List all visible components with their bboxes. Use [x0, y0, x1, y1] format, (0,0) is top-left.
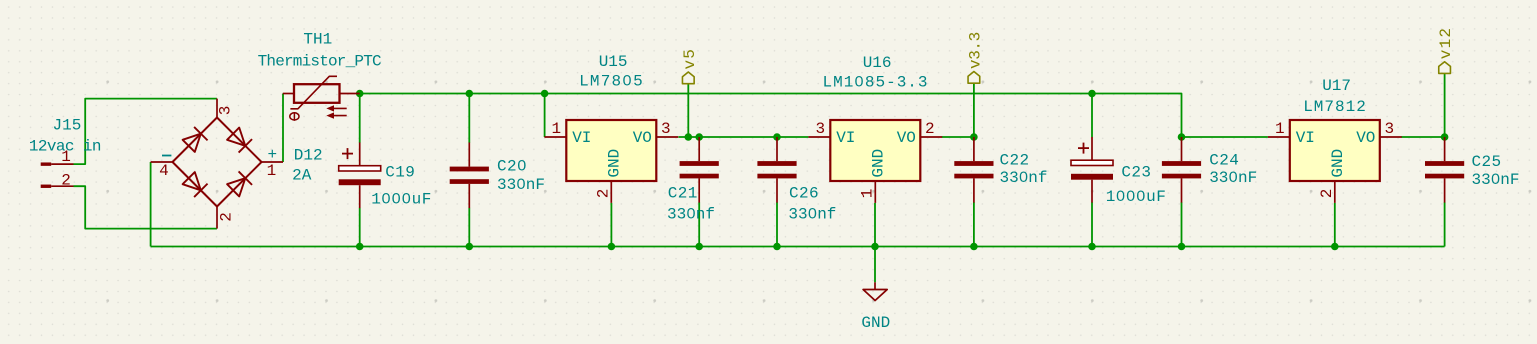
- svg-text:1: 1: [859, 189, 877, 199]
- wire v12 flag drop: [1444, 73, 1446, 137]
- wire C26 bottom: [776, 202, 778, 246]
- pin name VI of U17: [1296, 129, 1315, 147]
- svg-text:VI: VI: [572, 129, 591, 147]
- svg-text:LM7805: LM7805: [579, 73, 644, 91]
- svg-text:D12: D12: [294, 147, 323, 165]
- junction C26 node: [773, 133, 781, 141]
- wire v3.3 flag drop: [973, 83, 975, 137]
- svg-text:2: 2: [1318, 189, 1336, 199]
- plus terminal mark: [267, 146, 277, 164]
- value 330nF (C25): [1472, 171, 1520, 189]
- value LM7812: [1303, 98, 1367, 116]
- reference U17: [1322, 77, 1351, 95]
- pin name GND of U16: [870, 149, 888, 178]
- wire U17 GND to rail: [1334, 203, 1336, 247]
- value LM7805: [579, 73, 644, 91]
- svg-text:GND: GND: [861, 314, 890, 332]
- wire U15 GND to rail: [610, 203, 612, 247]
- wire C20 bottom: [468, 208, 470, 247]
- wire C21 bottom: [698, 202, 700, 246]
- capacitor C24: [1162, 137, 1201, 203]
- svg-text:3: 3: [217, 106, 235, 116]
- op-amp U16 (LM1085-3.3 regulator): [808, 120, 942, 203]
- svg-text:Thermistor_PTC: Thermistor_PTC: [258, 52, 381, 70]
- value 2A: [292, 167, 312, 185]
- svg-text:2A: 2A: [292, 167, 312, 185]
- bridge rectifier D12 body: [173, 118, 262, 207]
- wire node to U17 VI: [1182, 136, 1268, 138]
- svg-text:3: 3: [661, 120, 671, 138]
- wire v5 flag drop: [687, 84, 689, 137]
- reference TH1: [303, 30, 332, 48]
- wire ground rail: [151, 246, 1445, 248]
- wire 12V top rail: [360, 94, 1182, 138]
- svg-text:2: 2: [925, 120, 935, 138]
- wire C22 bottom: [973, 202, 975, 246]
- wire U15 VO to U16 VI: [678, 136, 808, 138]
- value 330nF (C20): [497, 176, 545, 194]
- svg-text:U16: U16: [863, 54, 892, 72]
- thermistor arrow 2: [326, 112, 346, 118]
- bridge pin 2 (AC bottom): [216, 207, 218, 229]
- svg-text:GND: GND: [1329, 149, 1347, 178]
- svg-text:C22: C22: [1000, 152, 1030, 170]
- pin name GND of U15: [606, 149, 624, 178]
- power flag v3.3: [968, 72, 980, 84]
- pin name VO of U15: [633, 129, 652, 147]
- junction C23 top rail: [1088, 90, 1096, 98]
- capacitor C21: [680, 137, 719, 203]
- reference C23: [1121, 163, 1151, 181]
- svg-text:C19: C19: [385, 163, 415, 181]
- wire top rail tap to U15 VI: [544, 94, 546, 138]
- pin number 2 of U16: [925, 120, 935, 138]
- reference C19: [385, 163, 415, 181]
- svg-text:GND: GND: [870, 149, 888, 178]
- junction C24 ground: [1178, 243, 1186, 251]
- junction C26 ground: [773, 243, 781, 251]
- pin number 3 of U17: [1384, 120, 1394, 138]
- pin number 1 of D12: [267, 162, 277, 180]
- reference C25: [1472, 153, 1502, 171]
- net label v12: [1437, 27, 1455, 59]
- reference U15: [599, 53, 628, 71]
- svg-text:1: 1: [1275, 120, 1285, 138]
- pin number 2 of J15: [61, 172, 71, 190]
- ground symbol: [863, 282, 887, 300]
- connector J15 pin 1: [41, 162, 74, 165]
- pin number 3 of U16: [815, 120, 825, 138]
- thermistor arrow 1: [326, 105, 346, 111]
- pin number 4 of D12: [159, 162, 169, 180]
- pin number 2 of U17: [1318, 189, 1336, 199]
- svg-text:VI: VI: [1296, 129, 1315, 147]
- bridge pin 4 (minus): [151, 161, 173, 163]
- thermistor theta mark: [290, 112, 299, 121]
- svg-text:C23: C23: [1121, 163, 1151, 181]
- pin number 1 of U17: [1275, 120, 1285, 138]
- junction C23 ground: [1088, 243, 1096, 251]
- reference C21: [668, 184, 698, 202]
- junction v5 node: [685, 133, 693, 141]
- svg-text:12vac in: 12vac in: [29, 138, 101, 156]
- junction U17 GND rail: [1331, 243, 1339, 251]
- svg-text:VO: VO: [1356, 129, 1375, 147]
- svg-text:C26: C26: [789, 184, 819, 202]
- pin number 1 of U16: [859, 189, 877, 199]
- wire C24 bottom: [1181, 202, 1183, 246]
- wire U17 VO to v12 node: [1401, 136, 1444, 138]
- svg-text:GND: GND: [606, 149, 624, 178]
- junction U15 VI tap: [541, 90, 549, 98]
- junction C21 node: [695, 133, 703, 141]
- thermistor TH1 right pin: [340, 93, 360, 95]
- svg-text:1: 1: [551, 120, 561, 138]
- reference C26: [789, 184, 819, 202]
- value LM1085-3.3: [822, 74, 928, 92]
- pin name GND of U17: [1329, 149, 1347, 178]
- capacitor C25: [1425, 137, 1464, 203]
- capacitor C20: [450, 143, 489, 209]
- svg-text:+: +: [267, 146, 277, 164]
- diode D12a (4 to 3): [183, 127, 208, 152]
- wire C19 bottom: [359, 208, 361, 247]
- wire bridge minus to ground rail: [150, 162, 152, 247]
- junction C20 ground: [466, 243, 474, 251]
- junction TH1/C19/top rail: [356, 90, 364, 98]
- svg-text:1000uF: 1000uF: [1106, 188, 1167, 206]
- net label v3.3: [966, 32, 984, 69]
- power flag v5: [682, 72, 694, 84]
- svg-text:C24: C24: [1209, 152, 1239, 170]
- svg-text:v5: v5: [681, 48, 699, 70]
- svg-text:VI: VI: [836, 129, 855, 147]
- reference U16: [863, 54, 892, 72]
- reference J15: [53, 117, 82, 135]
- svg-text:1000uF: 1000uF: [371, 191, 432, 209]
- reference C20: [497, 158, 527, 176]
- value 1000uF: [371, 191, 432, 209]
- pin number 1 of U15: [551, 120, 561, 138]
- svg-text:v3.3: v3.3: [966, 32, 984, 69]
- junction U16 GND rail: [871, 243, 879, 251]
- svg-text:U17: U17: [1322, 77, 1351, 95]
- minus terminal mark: [162, 155, 171, 157]
- svg-text:U15: U15: [599, 53, 628, 71]
- wire C23 bottom: [1091, 202, 1093, 246]
- capacitor C22: [954, 137, 993, 203]
- connector J15 pin 2: [41, 185, 74, 188]
- svg-text:3: 3: [815, 120, 825, 138]
- svg-text:VO: VO: [897, 129, 916, 147]
- wire rail to GND symbol: [874, 247, 876, 283]
- bridge pin 1 (plus): [262, 161, 284, 163]
- power flag v12: [1439, 62, 1451, 74]
- svg-text:1: 1: [267, 162, 277, 180]
- pin number 2 of D12: [218, 212, 236, 222]
- value Thermistor_PTC: [258, 52, 381, 70]
- wire J15 pin1 to bridge AC top: [74, 99, 217, 165]
- junction C22 ground: [970, 243, 978, 251]
- junction C21 ground: [695, 243, 703, 251]
- pin name VI of U16: [836, 129, 855, 147]
- svg-text:C25: C25: [1472, 153, 1502, 171]
- value 330nF (C24): [1209, 169, 1257, 187]
- diode D12d (2 to 1): [227, 171, 252, 196]
- svg-text:v12: v12: [1437, 27, 1455, 59]
- svg-text:J15: J15: [53, 117, 82, 135]
- svg-text:C21: C21: [668, 184, 698, 202]
- junction C20 top rail: [466, 90, 474, 98]
- wire bridge plus to TH1: [282, 94, 284, 163]
- thermistor TH1 diagonal: [290, 76, 337, 109]
- wire C25 bottom: [1444, 202, 1446, 246]
- net label v5: [681, 48, 699, 70]
- capacitor C26: [757, 137, 796, 203]
- wire U16 GND to rail: [874, 203, 876, 247]
- junction C19 ground: [356, 243, 364, 251]
- reference C24: [1209, 152, 1239, 170]
- reference D12: [294, 147, 323, 165]
- wire J15 pin2 to bridge AC bottom: [74, 186, 217, 228]
- thermistor TH1 body: [294, 84, 340, 103]
- value 330nf (C21): [667, 206, 715, 224]
- junction U15 GND rail: [608, 243, 616, 251]
- capacitor C19 (polarized): [339, 143, 381, 209]
- value 330nf (C22): [1000, 169, 1048, 187]
- diode D12b (3 to 1): [227, 128, 252, 153]
- diode D12c (4 to 2): [183, 172, 208, 197]
- pin number 1 of J15: [61, 148, 71, 166]
- pin number 2 of U15: [595, 189, 613, 199]
- value 330nf (C26): [788, 206, 836, 224]
- pin name VO of U16: [897, 129, 916, 147]
- op-amp U17 (LM7812 regulator): [1268, 120, 1402, 203]
- svg-text:VO: VO: [633, 129, 652, 147]
- pin number 3 of D12: [217, 106, 235, 116]
- ground label GND: [861, 314, 890, 332]
- value 12vac in: [29, 138, 101, 156]
- junction v3.3/C22/U16 VO: [970, 133, 978, 141]
- capacitor C23 (polarized): [1071, 137, 1113, 203]
- svg-text:2: 2: [61, 172, 71, 190]
- svg-text:TH1: TH1: [303, 30, 332, 48]
- svg-text:2: 2: [595, 189, 613, 199]
- svg-text:2: 2: [218, 212, 236, 222]
- pin name VO of U17: [1356, 129, 1375, 147]
- wire C23 top: [1091, 94, 1093, 138]
- junction v12/C25/U17 VO: [1441, 133, 1449, 141]
- wire C19 top: [359, 94, 361, 143]
- svg-text:LM1085-3.3: LM1085-3.3: [822, 74, 928, 92]
- svg-text:4: 4: [159, 162, 169, 180]
- bridge pin 3 (AC top): [216, 99, 218, 118]
- op-amp U15 (LM7805 regulator): [544, 120, 678, 203]
- wire C20 top: [468, 94, 470, 143]
- reference C22: [1000, 152, 1030, 170]
- junction C24/U17 VI: [1178, 133, 1186, 141]
- svg-text:3: 3: [1384, 120, 1394, 138]
- pin number 3 of U15: [661, 120, 671, 138]
- wire U16 VO to v3.3 node: [942, 136, 974, 138]
- value 1000uF (C23): [1106, 188, 1167, 206]
- thermistor TH1 left pin: [283, 93, 294, 95]
- pin name VI of U15: [572, 129, 591, 147]
- svg-text:LM7812: LM7812: [1303, 98, 1367, 116]
